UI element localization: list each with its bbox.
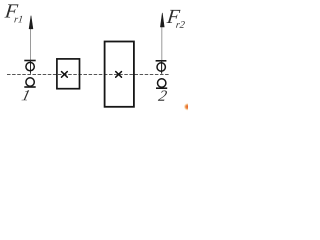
- bearing 1 upper roller circle: [26, 62, 34, 70]
- bearing 1 support stem: [30, 61, 32, 74]
- bearing 2 bottom bar: [156, 87, 167, 89]
- force F_r2 arrowhead: [160, 13, 164, 27]
- small orange marker artifact clipped at bottom-right edge: [0, 0, 1, 1]
- force F_r2 arrow line: [161, 24, 163, 74]
- gear 2 (right tall rectangle): [105, 42, 134, 107]
- bearing 2 lower roller circle: [158, 79, 166, 87]
- shaft axis centerline: [7, 74, 169, 76]
- bearing 2 top bar: [156, 60, 167, 62]
- label support 1: [21, 90, 29, 100]
- gear 1 center cross: [62, 72, 68, 78]
- bearing 2 support stem: [161, 61, 163, 74]
- label F_r1: [4, 4, 22, 22]
- force F_r1 arrowhead: [29, 16, 33, 29]
- bearing 1 bottom bar: [24, 86, 35, 88]
- gear 1 (left rectangle): [57, 59, 80, 89]
- gear 2 center cross: [116, 72, 122, 78]
- label support 2: [158, 91, 168, 101]
- label F_r2: [166, 10, 185, 28]
- bearing 2 upper roller circle: [157, 63, 165, 71]
- bearing 1 lower roller circle: [26, 78, 34, 86]
- force F_r1 arrow line: [30, 24, 32, 74]
- bearing 1 top bar: [24, 60, 35, 62]
